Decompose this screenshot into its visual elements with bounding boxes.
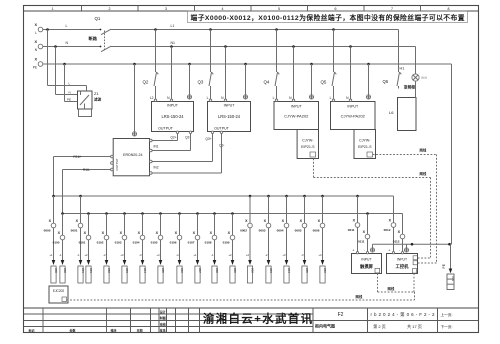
svg-text:OUTPUT: OUTPUT [214, 127, 230, 131]
svg-text:LRS-150-24: LRS-150-24 [161, 114, 184, 119]
svg-text:+2: +2 [84, 253, 88, 257]
svg-text:L: L [66, 24, 68, 28]
svg-text:0109: 0109 [223, 241, 230, 245]
terminal X PE [33, 58, 43, 70]
svg-text:Q6: Q6 [383, 79, 389, 84]
svg-text:0112: 0112 [393, 240, 400, 244]
filter Z1 [78, 91, 102, 117]
svg-text:0106: 0106 [170, 241, 177, 245]
svg-text:日期: 日期 [136, 328, 142, 333]
fuse terminal X0102 [97, 214, 111, 284]
network cable HMI to IPC [378, 273, 415, 292]
svg-text:共 17 页: 共 17 页 [407, 323, 422, 329]
reactor L6 [389, 98, 416, 131]
svg-text:LRS-150-24: LRS-150-24 [218, 114, 241, 119]
svg-text:-: - [399, 249, 400, 253]
switch Q3 [198, 30, 214, 100]
svg-text:PE: PE [67, 97, 71, 101]
svg-text:8: 8 [448, 7, 450, 11]
svg-text:203: 203 [125, 268, 129, 273]
output terminals Q3+/Q3- [205, 131, 224, 147]
svg-text:+1: +1 [193, 253, 197, 257]
fuse terminal X0112 [393, 214, 405, 253]
title block [24, 308, 479, 333]
fuse terminal X0107 [188, 214, 202, 284]
network cable EIP1 to IPC [314, 159, 431, 259]
svg-text:L2: L2 [150, 96, 154, 100]
svg-text:+: + [389, 249, 391, 253]
svg-text:渝湘白云+水武首讯: 渝湘白云+水武首讯 [203, 311, 313, 325]
meter CJYW-PA202 #2 [330, 95, 375, 130]
terminal X PE right [442, 244, 455, 289]
svg-text:7: 7 [391, 7, 393, 11]
svg-text:+1: +1 [49, 253, 53, 257]
svg-text:+3: +3 [282, 253, 286, 257]
wire Q2+ to IN1 [152, 134, 177, 141]
svg-text:208: 208 [215, 268, 219, 273]
wire Q2- to IN1 [152, 134, 190, 151]
svg-text:L: L [35, 31, 37, 35]
svg-text:+: + [353, 249, 355, 253]
module CJYW-EIP21-S #1 [297, 130, 318, 159]
svg-text:200: 200 [63, 268, 67, 273]
svg-text:网线: 网线 [420, 148, 427, 153]
svg-text:206: 206 [323, 268, 327, 273]
svg-text:202: 202 [250, 268, 254, 273]
svg-text:ERDN20-24: ERDN20-24 [123, 153, 142, 157]
wire N neutral [43, 41, 416, 48]
svg-text:207: 207 [198, 268, 202, 273]
svg-text:1: 1 [52, 7, 54, 11]
wire Q3+ to IN2 [152, 134, 212, 162]
output terminals Q2+/Q2- [170, 131, 191, 139]
svg-text:N: N [69, 90, 71, 94]
fuse terminal X0106 [170, 214, 184, 284]
svg-text:INPUT: INPUT [291, 105, 303, 109]
svg-text:R16-: R16- [83, 168, 90, 172]
svg-text:Q4: Q4 [264, 80, 270, 85]
svg-text:设计: 设计 [160, 309, 166, 314]
fuse terminal X0005 [295, 196, 309, 283]
svg-text:0012: 0012 [384, 228, 391, 232]
svg-text:网线: 网线 [356, 294, 363, 299]
svg-text:0100: 0100 [53, 241, 60, 245]
svg-text:202: 202 [107, 268, 111, 273]
earth of IPC [404, 244, 408, 252]
svg-text:5: 5 [278, 7, 280, 11]
fuse terminal X0011 [348, 196, 360, 253]
svg-text:F2: F2 [338, 312, 344, 318]
svg-text:标记: 标记 [27, 328, 34, 333]
note: fuse terminal instruction text [188, 11, 468, 23]
svg-text:CJYW-PA202: CJYW-PA202 [341, 114, 366, 119]
svg-text:206: 206 [180, 268, 184, 273]
svg-text:OUTPUT: OUTPUT [115, 158, 119, 171]
svg-text:0004: 0004 [277, 229, 284, 233]
svg-text:INPUT: INPUT [347, 105, 359, 109]
svg-text:200: 200 [54, 268, 58, 273]
svg-text:4: 4 [222, 7, 224, 11]
touchscreen HMI [352, 249, 382, 274]
svg-text:+4: +4 [318, 253, 322, 257]
switch Q5 [321, 30, 337, 100]
svg-text:-: - [364, 249, 365, 253]
svg-text:滤波: 滤波 [93, 97, 102, 102]
svg-text:Z1: Z1 [94, 91, 99, 96]
svg-text:L6: L6 [389, 110, 394, 115]
svg-text:PE: PE [33, 66, 37, 70]
switch Q4 [264, 30, 280, 100]
svg-text:204: 204 [143, 268, 147, 273]
fuse terminal X0003 [259, 196, 273, 283]
svg-text:W/H: W/H [421, 76, 428, 80]
wire R16+ [54, 155, 111, 196]
bus 24V+ [52, 195, 393, 198]
fuse terminal X0111 [358, 214, 370, 253]
svg-text:+2: +2 [228, 253, 232, 257]
svg-text:204: 204 [287, 268, 291, 273]
svg-text:205: 205 [305, 268, 309, 273]
svg-text:X21: X21 [451, 276, 455, 282]
svg-text:R16+: R16+ [73, 155, 81, 159]
svg-text:变频柜: 变频柜 [404, 85, 416, 90]
svg-text:Q5: Q5 [321, 80, 327, 85]
power supply LRS-150-24 #1 [150, 95, 194, 132]
network cable IPC to EJC202 [67, 292, 415, 300]
svg-text:INPUT: INPUT [397, 258, 407, 262]
switch Q6 [383, 30, 402, 89]
svg-text:N1: N1 [171, 41, 176, 45]
svg-text:0108: 0108 [205, 241, 212, 245]
power supply LRS-150-24 #2 [207, 95, 251, 132]
fuse terminal X0104 [133, 214, 147, 284]
relay module ERDN20-24 [111, 64, 159, 176]
wire N drops [172, 47, 351, 100]
svg-text:0107: 0107 [188, 241, 195, 245]
svg-text:0105: 0105 [151, 241, 158, 245]
svg-text:端子X0000-X0012，X0100-0112为保险丝端子: 端子X0000-X0012，X0100-0112为保险丝端子，本图中没有的保险丝… [191, 13, 465, 22]
fuse terminal X0100 [53, 214, 67, 284]
fuse terminal X0012 [384, 196, 396, 253]
svg-text:网线: 网线 [388, 286, 395, 291]
svg-text:Q3+: Q3+ [205, 137, 211, 141]
svg-text:6: 6 [335, 7, 337, 11]
wire to filter Z1 [48, 30, 87, 102]
svg-text:下一页:: 下一页: [441, 324, 453, 329]
svg-text:INPUT: INPUT [361, 258, 371, 262]
fuse terminal X0109 [223, 214, 237, 284]
fuse terminal X0105 [151, 214, 165, 284]
svg-text:L1: L1 [171, 24, 175, 28]
svg-text:INPUT: INPUT [167, 104, 179, 108]
svg-text:工控机: 工控机 [396, 263, 410, 270]
svg-text:+2: +2 [246, 253, 250, 257]
svg-text:201: 201 [81, 268, 85, 273]
bus 24V- [61, 212, 402, 215]
breaker Q1 [89, 16, 112, 52]
svg-text:L: L [207, 96, 209, 100]
svg-text:IN2: IN2 [154, 166, 159, 170]
svg-text:0005: 0005 [295, 229, 302, 233]
svg-text:修改: 修改 [109, 328, 117, 333]
svg-text:Q3: Q3 [198, 80, 204, 85]
svg-text:制图: 制图 [160, 315, 166, 320]
terminal X N [34, 40, 42, 52]
svg-text:处数: 处数 [68, 328, 75, 333]
network cable EIP2 to IPC [373, 148, 437, 264]
lamp H1 [400, 47, 428, 98]
fuse terminal X0101 [79, 214, 93, 284]
fuse terminal X0006 [313, 196, 327, 283]
svg-text:Q2: Q2 [143, 80, 149, 85]
svg-text:2: 2 [109, 7, 111, 11]
industrial PC 工控机 [387, 249, 418, 274]
svg-text:L: L [273, 96, 275, 100]
svg-text:CJYW-PA202: CJYW-PA202 [284, 114, 309, 119]
svg-text:0003: 0003 [259, 229, 266, 233]
wire Q3- to IN2 [152, 134, 221, 174]
svg-text:上一页:: 上一页: [441, 312, 453, 317]
svg-text:EJC202: EJC202 [53, 289, 65, 293]
svg-text:IN1: IN1 [154, 145, 159, 149]
fuse terminal X0002 [240, 196, 254, 283]
svg-text:第 2 页: 第 2 页 [373, 323, 385, 329]
svg-text:OUTPUT: OUTPUT [158, 127, 174, 131]
svg-text:0006: 0006 [313, 229, 320, 233]
svg-text:0000: 0000 [44, 229, 51, 233]
fuse terminal X0000 [44, 196, 58, 283]
svg-text:203: 203 [269, 268, 273, 273]
svg-text:0103: 0103 [115, 241, 122, 245]
wire PE earth [43, 63, 452, 66]
earth of HMI [370, 244, 374, 252]
svg-text:L: L [330, 96, 332, 100]
svg-text:柜内电气图: 柜内电气图 [314, 323, 335, 329]
svg-text:EIP21-S: EIP21-S [358, 145, 372, 149]
wire PE right drop [373, 64, 452, 246]
svg-text:0001: 0001 [71, 229, 78, 233]
svg-text:批准: 批准 [160, 328, 166, 333]
svg-text:0111: 0111 [358, 240, 365, 244]
svg-text:0101: 0101 [79, 241, 86, 245]
wire L phase [43, 24, 399, 31]
svg-text:触摸屏: 触摸屏 [359, 263, 374, 270]
svg-text:审核: 审核 [160, 321, 166, 326]
svg-text:0002: 0002 [240, 229, 247, 233]
svg-text:EIP21-S: EIP21-S [301, 145, 315, 149]
svg-text:CJYW-: CJYW- [359, 139, 371, 143]
module CJYW-EIP21-S #2 [354, 130, 376, 159]
svg-text:0102: 0102 [97, 241, 104, 245]
svg-text:H1: H1 [400, 67, 405, 71]
svg-text:INPUT: INPUT [224, 104, 236, 108]
terminal X L [34, 23, 42, 35]
svg-text:205: 205 [161, 268, 165, 273]
svg-text:网线: 网线 [420, 171, 427, 176]
fuse terminal X0001 [71, 196, 85, 283]
svg-text:+4: +4 [156, 253, 160, 257]
fuse terminal X0108 [205, 214, 219, 284]
meter CJYW-PA202 #1 [273, 95, 319, 130]
svg-text:209: 209 [233, 268, 237, 273]
fuse terminal X0103 [115, 214, 129, 284]
svg-text:0104: 0104 [133, 241, 140, 245]
fuse terminal X0004 [277, 196, 291, 283]
svg-text:201: 201 [89, 268, 93, 273]
svg-text:3: 3 [165, 7, 167, 11]
svg-text:rb2024-第06-F2-2: rb2024-第06-F2-2 [371, 311, 435, 318]
svg-text:Q2-: Q2- [185, 136, 190, 140]
switch Q2 [143, 30, 159, 100]
svg-text:CJYW-: CJYW- [302, 139, 314, 143]
wire R16- [63, 168, 111, 214]
svg-text:+3: +3 [120, 253, 124, 257]
svg-text:Q1: Q1 [95, 16, 101, 21]
wire PE drops [190, 64, 369, 95]
svg-text:断路: 断路 [89, 35, 98, 42]
svg-text:0011: 0011 [348, 228, 355, 232]
module EJC202 [49, 286, 68, 303]
svg-text:Q2+: Q2+ [170, 136, 176, 140]
